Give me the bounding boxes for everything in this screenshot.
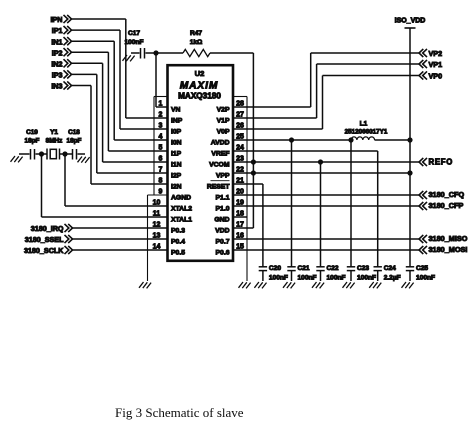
svg-text:21: 21 xyxy=(236,178,244,185)
svg-text:VCOM: VCOM xyxy=(209,162,230,169)
svg-text:100nF: 100nF xyxy=(124,39,143,46)
svg-text:P0.6: P0.6 xyxy=(216,250,230,257)
svg-text:3180_SSEL: 3180_SSEL xyxy=(25,235,64,244)
svg-text:7: 7 xyxy=(159,167,163,174)
svg-text:100nF: 100nF xyxy=(327,274,346,281)
svg-text:VDD: VDD xyxy=(215,228,229,235)
svg-text:V0P: V0P xyxy=(217,129,230,136)
svg-text:14: 14 xyxy=(153,244,161,251)
svg-text:I0N: I0N xyxy=(171,140,182,147)
svg-text:L1: L1 xyxy=(360,120,368,127)
svg-text:VP1: VP1 xyxy=(429,60,443,69)
svg-text:3180_IRQ: 3180_IRQ xyxy=(31,224,64,233)
svg-text:100nF: 100nF xyxy=(416,274,435,281)
svg-text:4: 4 xyxy=(159,134,163,141)
svg-text:P0.5: P0.5 xyxy=(171,250,185,257)
svg-text:24: 24 xyxy=(236,145,244,152)
svg-text:2512066017Y1: 2512066017Y1 xyxy=(345,128,388,135)
svg-text:IN3: IN3 xyxy=(51,82,62,91)
svg-text:U2: U2 xyxy=(195,69,205,78)
svg-text:ISO_VDD: ISO_VDD xyxy=(395,18,426,25)
svg-text:IP3: IP3 xyxy=(52,71,63,80)
svg-text:12: 12 xyxy=(153,222,161,229)
svg-text:10: 10 xyxy=(153,200,161,207)
svg-text:AGND: AGND xyxy=(171,195,191,202)
svg-text:C19: C19 xyxy=(26,129,38,136)
svg-text:C21: C21 xyxy=(298,265,310,272)
svg-text:C17: C17 xyxy=(128,30,140,37)
svg-text:Fig 3 Schematic of slave: Fig 3 Schematic of slave xyxy=(115,405,244,420)
svg-text:P0.3: P0.3 xyxy=(171,228,185,235)
svg-text:23: 23 xyxy=(236,156,244,163)
svg-text:Y1: Y1 xyxy=(50,129,58,136)
svg-text:VP2: VP2 xyxy=(429,49,443,58)
svg-text:18pF: 18pF xyxy=(25,137,40,144)
svg-text:VPP: VPP xyxy=(216,173,230,180)
svg-text:16: 16 xyxy=(236,233,244,240)
svg-text:IP2: IP2 xyxy=(52,48,63,57)
svg-text:C18: C18 xyxy=(68,129,80,136)
svg-text:5: 5 xyxy=(159,145,163,152)
svg-text:9: 9 xyxy=(159,189,163,196)
svg-text:3180_CFQ: 3180_CFQ xyxy=(429,190,465,199)
svg-text:18pF: 18pF xyxy=(67,137,82,144)
svg-text:MAXQ3180: MAXQ3180 xyxy=(178,92,221,101)
svg-text:20: 20 xyxy=(236,189,244,196)
svg-text:27: 27 xyxy=(236,112,244,119)
svg-text:VN: VN xyxy=(171,107,181,114)
svg-text:P1.1: P1.1 xyxy=(216,195,230,202)
svg-text:C22: C22 xyxy=(327,265,339,272)
svg-text:INP: INP xyxy=(171,118,183,125)
svg-text:P0.7: P0.7 xyxy=(216,239,230,246)
svg-text:R47: R47 xyxy=(190,30,202,37)
svg-text:AVDD: AVDD xyxy=(211,140,230,147)
svg-text:1kΩ: 1kΩ xyxy=(190,39,203,46)
svg-text:8: 8 xyxy=(159,178,163,185)
svg-text:IN2: IN2 xyxy=(51,59,62,68)
svg-text:IPN: IPN xyxy=(51,15,63,24)
svg-text:1: 1 xyxy=(159,101,163,108)
svg-text:I2N: I2N xyxy=(171,184,182,191)
svg-text:I1N: I1N xyxy=(171,162,182,169)
svg-text:I1P: I1P xyxy=(171,151,182,158)
svg-text:I2P: I2P xyxy=(171,173,182,180)
svg-text:V2P: V2P xyxy=(217,107,230,114)
svg-text:17: 17 xyxy=(236,222,244,229)
svg-text:22: 22 xyxy=(236,167,244,174)
svg-text:GND: GND xyxy=(214,217,229,224)
svg-text:19: 19 xyxy=(236,200,244,207)
svg-text:RESET: RESET xyxy=(207,184,231,191)
svg-text:VP0: VP0 xyxy=(429,72,443,81)
svg-text:C23: C23 xyxy=(357,265,369,272)
svg-text:26: 26 xyxy=(236,123,244,130)
svg-text:28: 28 xyxy=(236,101,244,108)
svg-text:18: 18 xyxy=(236,211,244,218)
svg-text:100nF: 100nF xyxy=(298,274,317,281)
svg-text:11: 11 xyxy=(153,211,161,218)
svg-text:3: 3 xyxy=(159,123,163,130)
svg-text:15: 15 xyxy=(236,244,244,251)
svg-text:3180_CFP: 3180_CFP xyxy=(429,201,464,210)
svg-text:XTAL2: XTAL2 xyxy=(171,206,192,213)
svg-text:IN1: IN1 xyxy=(51,37,62,46)
svg-text:P0.4: P0.4 xyxy=(171,239,185,246)
svg-text:3180_SCLK: 3180_SCLK xyxy=(24,246,64,255)
svg-text:25: 25 xyxy=(236,134,244,141)
svg-text:100nF: 100nF xyxy=(357,274,376,281)
svg-text:100nF: 100nF xyxy=(269,274,288,281)
svg-text:VREF: VREF xyxy=(211,151,229,158)
svg-text:3180_MOSI: 3180_MOSI xyxy=(429,245,468,254)
svg-text:V1P: V1P xyxy=(217,118,230,125)
svg-text:C25: C25 xyxy=(416,265,428,272)
svg-text:I0P: I0P xyxy=(171,129,182,136)
svg-text:6: 6 xyxy=(159,156,163,163)
svg-text:C24: C24 xyxy=(384,265,396,272)
svg-text:13: 13 xyxy=(153,233,161,240)
svg-text:2.2µF: 2.2µF xyxy=(384,274,401,281)
svg-text:2: 2 xyxy=(159,112,163,119)
svg-text:P1.0: P1.0 xyxy=(216,206,230,213)
svg-text:3180_MISO: 3180_MISO xyxy=(429,234,468,243)
svg-text:REFO: REFO xyxy=(429,157,453,166)
svg-text:IP1: IP1 xyxy=(52,26,63,35)
svg-text:8MHz: 8MHz xyxy=(46,137,63,144)
svg-text:XTAL1: XTAL1 xyxy=(171,217,192,224)
svg-text:MAXIM: MAXIM xyxy=(180,80,218,91)
svg-text:C20: C20 xyxy=(269,265,281,272)
